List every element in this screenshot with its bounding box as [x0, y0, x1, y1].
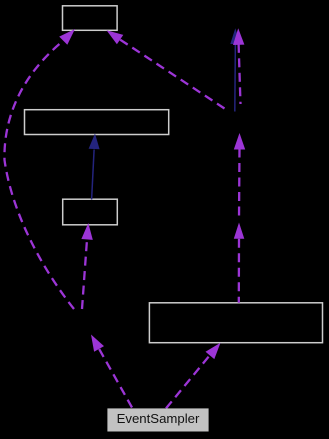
- svg-text:EventSampler: EventSampler: [117, 411, 200, 426]
